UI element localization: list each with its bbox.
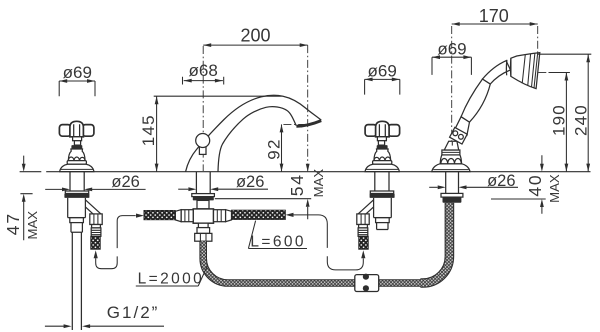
svg-text:MAX: MAX bbox=[311, 169, 326, 198]
hole centerline at 200mm bbox=[307, 45, 309, 171]
tee right cone bbox=[226, 210, 232, 222]
dim 240 shower head top bbox=[538, 54, 591, 171]
svg-text:200: 200 bbox=[240, 25, 270, 45]
diverter knob bbox=[196, 134, 210, 148]
dim G1/2 bbox=[45, 303, 164, 328]
outlet hex adapter bbox=[90, 214, 102, 225]
fluted crown bbox=[68, 149, 85, 161]
svg-text:ø69: ø69 bbox=[63, 63, 92, 82]
shower hose L=2000 bbox=[203, 241, 421, 283]
o-ring dark band bbox=[71, 145, 82, 149]
diverter knob stem bbox=[199, 147, 206, 155]
label L=600 bbox=[248, 221, 307, 251]
holder collar bbox=[442, 150, 460, 155]
dim 47 MAX bbox=[3, 156, 40, 241]
spindle grip bbox=[461, 79, 490, 122]
holder rim line bbox=[433, 169, 468, 171]
hub front arm lines bbox=[74, 124, 80, 136]
head bell bbox=[511, 53, 540, 89]
tee bottom hex coupling bbox=[195, 233, 212, 241]
connection arrow into left supply hose bbox=[136, 214, 144, 218]
svg-text:L=2000: L=2000 bbox=[138, 270, 205, 287]
svg-text:47: 47 bbox=[3, 212, 23, 235]
spout shank below deck bbox=[196, 172, 210, 194]
hose coupling block bbox=[355, 275, 379, 292]
routing loop left bbox=[96, 216, 136, 269]
svg-text:MAX: MAX bbox=[547, 174, 562, 203]
valve body bbox=[374, 198, 392, 218]
svg-text:ø26: ø26 bbox=[236, 173, 264, 191]
cross handle hub bbox=[70, 121, 84, 137]
body lower tube bbox=[71, 223, 82, 233]
escutcheon dome bbox=[365, 164, 399, 171]
dim 145 spout height bbox=[139, 96, 281, 171]
o-ring dark band bbox=[377, 145, 388, 149]
handle stem bbox=[74, 141, 80, 145]
dim 170 bbox=[452, 6, 538, 26]
threaded shank below deck bbox=[375, 172, 389, 191]
spout mounting nut bbox=[193, 197, 214, 201]
holder crown bbox=[440, 155, 461, 164]
svg-text:240: 240 bbox=[571, 104, 590, 136]
dim 92 outlet height bbox=[264, 124, 310, 171]
braided hose stub bbox=[359, 236, 369, 249]
washer bbox=[65, 191, 88, 194]
fluted crown bbox=[374, 149, 391, 161]
crown scallops bbox=[441, 158, 461, 163]
body band bbox=[376, 218, 390, 223]
outlet elbow bbox=[85, 200, 101, 218]
cross handle left arm bbox=[59, 125, 71, 137]
spout inner outline bbox=[218, 107, 296, 172]
escutcheon rim line bbox=[366, 168, 398, 170]
outlet thread bbox=[91, 228, 101, 236]
bell moldings bbox=[522, 53, 538, 88]
handle lower joint bbox=[455, 117, 469, 136]
supply pipe bbox=[72, 232, 81, 330]
outlet thread bbox=[358, 228, 368, 236]
svg-text:MAX: MAX bbox=[25, 211, 40, 240]
neck bbox=[483, 61, 511, 84]
escutcheon dome bbox=[60, 164, 94, 171]
threaded shank below deck bbox=[70, 172, 84, 191]
svg-text:ø69: ø69 bbox=[437, 39, 466, 58]
right supply hose L=600 bbox=[232, 210, 286, 219]
tee left hex bbox=[181, 210, 193, 222]
spout body outline bbox=[186, 95, 322, 171]
coupling screw bottom bbox=[363, 285, 369, 291]
handle stem bbox=[378, 141, 384, 145]
coupling screw top bbox=[363, 274, 369, 280]
mounting nut bbox=[370, 194, 395, 198]
svg-text:ø26: ø26 bbox=[487, 172, 515, 190]
tee right hex bbox=[214, 210, 226, 222]
mounting nut bbox=[64, 194, 89, 198]
cross handle right arm bbox=[82, 125, 94, 137]
holder shank below deck bbox=[446, 172, 459, 194]
shower head centerline bbox=[537, 26, 539, 54]
svg-text:40: 40 bbox=[525, 174, 545, 197]
dim o26 shower holder bbox=[429, 172, 518, 190]
valve body bbox=[68, 198, 86, 218]
washer bbox=[370, 191, 393, 194]
svg-text:G1/2”: G1/2” bbox=[107, 303, 160, 322]
handle neck bbox=[377, 137, 386, 141]
handle neck bbox=[73, 137, 82, 141]
outlet elbow bbox=[358, 200, 374, 218]
holder nut bbox=[443, 197, 462, 203]
tee left cone bbox=[175, 210, 181, 222]
spout centerline bbox=[202, 46, 204, 171]
dim o26 left valve bbox=[45, 173, 145, 191]
crown scallops bbox=[374, 157, 391, 161]
collar beads bbox=[453, 131, 458, 136]
cross handle hub bbox=[376, 121, 390, 137]
tee bottom nut bbox=[197, 228, 210, 234]
dim 190 shower head bbox=[549, 73, 570, 172]
holder escutcheon dome bbox=[432, 164, 470, 172]
spout washer bbox=[192, 194, 215, 197]
dim 40 MAX bbox=[491, 155, 562, 214]
tee neck bbox=[197, 200, 209, 209]
deck / tub rim line bbox=[20, 171, 591, 173]
handle cone bbox=[444, 141, 458, 150]
holder washer bbox=[441, 193, 463, 197]
connection arrow at left stub bbox=[94, 250, 98, 258]
svg-text:92: 92 bbox=[264, 138, 283, 159]
head collar rings bbox=[506, 58, 511, 76]
svg-text:170: 170 bbox=[479, 6, 509, 26]
svg-text:ø69: ø69 bbox=[368, 62, 397, 81]
dim 54 MAX bbox=[215, 164, 326, 220]
label L=2000 bbox=[136, 266, 207, 287]
dim o69 shower holder bbox=[432, 39, 471, 75]
svg-text:ø26: ø26 bbox=[111, 173, 139, 191]
connection arrow at right stub bbox=[361, 250, 365, 258]
base ring bbox=[373, 161, 392, 165]
cross handle right arm bbox=[365, 125, 377, 137]
body band bbox=[70, 218, 84, 223]
svg-text:145: 145 bbox=[139, 114, 158, 146]
tee body bbox=[193, 209, 213, 223]
left supply hose L=600 bbox=[144, 210, 175, 219]
spout mouth rim bbox=[296, 121, 321, 127]
hub front arm lines bbox=[379, 124, 385, 136]
connection arrow into right supply hose bbox=[286, 213, 294, 217]
shower head axis dash-dot bbox=[538, 72, 548, 74]
base ring bbox=[67, 161, 86, 165]
dim o68 spout bbox=[183, 61, 224, 84]
svg-text:190: 190 bbox=[549, 104, 568, 136]
shower holder centerline bbox=[451, 26, 453, 171]
dim 200 bbox=[203, 25, 308, 47]
svg-text:ø68: ø68 bbox=[189, 61, 218, 80]
ringed collar bbox=[450, 127, 468, 144]
cross handle left arm bbox=[388, 125, 400, 137]
dim o69 right handle bbox=[365, 62, 400, 95]
escutcheon rim line bbox=[61, 168, 93, 170]
outlet neck bbox=[359, 225, 368, 228]
dim o69 left handle bbox=[59, 63, 95, 96]
tee bottom neck bbox=[198, 223, 208, 227]
routing path right bbox=[294, 215, 364, 270]
outlet neck bbox=[92, 225, 101, 228]
svg-text:54: 54 bbox=[287, 173, 307, 196]
crown scallops bbox=[68, 157, 85, 161]
braided hose stub bbox=[91, 236, 101, 249]
dim o26 spout bbox=[178, 173, 268, 191]
body end tube bbox=[377, 223, 388, 230]
outlet hex adapter bbox=[357, 214, 369, 225]
